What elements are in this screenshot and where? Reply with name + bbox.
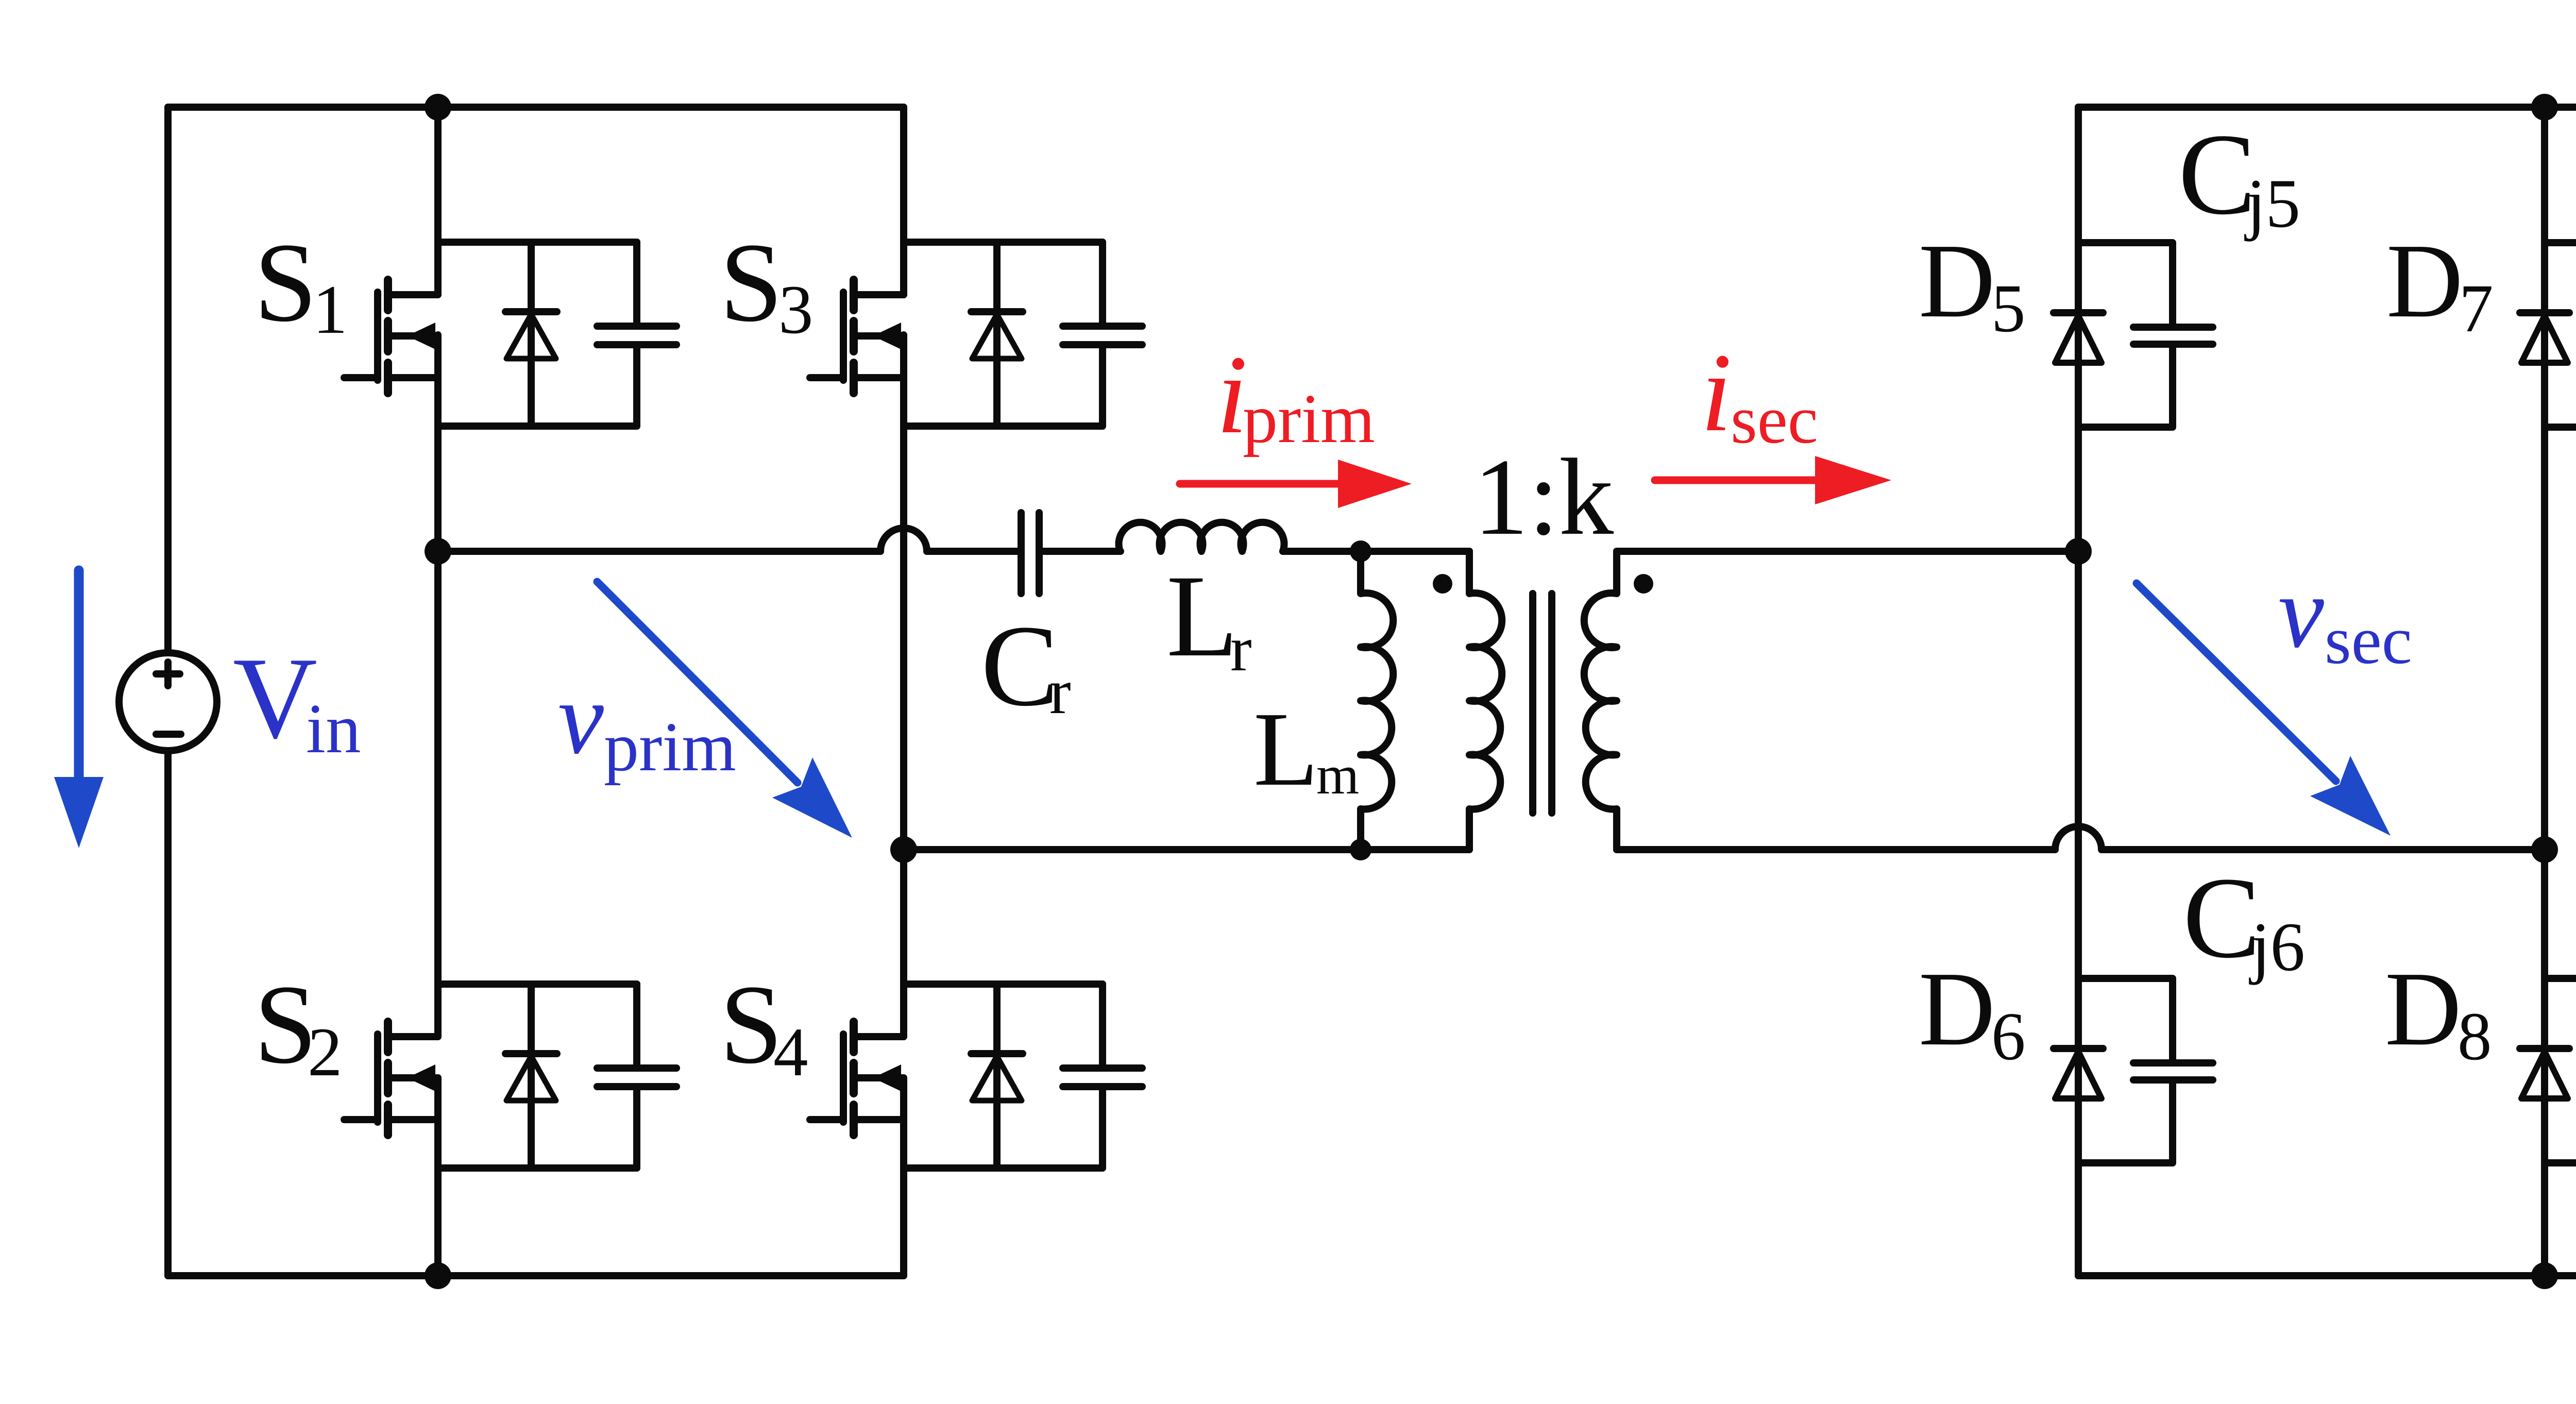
svg-text:5: 5 <box>1991 270 2026 346</box>
node bottom right junction <box>2531 1262 2558 1289</box>
node Lm bottom junction <box>1350 839 1371 860</box>
S4 snubber box right edge <box>1099 984 1106 1065</box>
S4 snubber box top <box>904 980 1103 988</box>
mosfet S2 drain stub <box>388 1033 438 1040</box>
inductor Lm branch <box>1361 551 1393 850</box>
node S3/S4 mid junction <box>890 836 917 863</box>
svg-text:prim: prim <box>604 708 736 786</box>
svg-text:8: 8 <box>2458 998 2492 1074</box>
body diode of S4 branch <box>993 984 1001 1168</box>
svg-text:D: D <box>1919 222 1995 340</box>
Vin minus sign <box>156 731 181 738</box>
svg-text:1:k: 1:k <box>1473 436 1614 558</box>
wire left rail upper (Vin +) <box>164 107 172 653</box>
svg-text:j6: j6 <box>2249 909 2305 986</box>
output capacitor of S1 plates <box>597 323 676 330</box>
mosfet S4 source stub <box>854 1116 904 1123</box>
mosfet S2 source stub <box>388 1116 438 1123</box>
mosfet S3 source stub <box>854 374 904 381</box>
diode D8 cathode bar <box>2520 1045 2569 1052</box>
svg-text:S: S <box>254 219 317 345</box>
node rectifier top junction <box>2531 94 2558 121</box>
svg-text:i: i <box>1701 331 1732 455</box>
S1 snubber box bottom <box>438 422 637 430</box>
wire D7/D8 leg <box>2541 107 2548 1276</box>
svg-text:in: in <box>306 689 361 768</box>
wire bottom rail right <box>2078 1272 2576 1279</box>
svg-text:4: 4 <box>773 1014 808 1091</box>
mosfet S4 gate bar <box>840 1034 847 1122</box>
capacitor Cr plates <box>1018 513 1025 594</box>
junction capacitor C6 bracket <box>2078 978 2173 1060</box>
wire S3/S4 leg bottom <box>900 1078 907 1276</box>
mosfet S2 gate bar <box>374 1034 381 1122</box>
wire D5/D6 leg <box>2075 107 2082 1276</box>
transformer T1 secondary winding <box>1584 551 1617 850</box>
wire hop to D7 leg <box>2102 846 2545 853</box>
junction capacitor C5 plates <box>2133 324 2213 331</box>
svg-text:1: 1 <box>313 272 348 348</box>
diode D6 cathode bar <box>2054 1045 2103 1052</box>
transformer T1 primary winding <box>1469 551 1502 850</box>
svg-text:j5: j5 <box>2244 165 2300 242</box>
output capacitor of S2 plates <box>597 1064 676 1072</box>
wire mid rail from S1 leg <box>438 548 880 555</box>
mosfet S3 body line with arrow <box>856 332 904 340</box>
transformer primary polarity dot <box>1433 574 1452 594</box>
wire Cr to Lr <box>1042 548 1121 555</box>
diode D8 triangle <box>2521 1052 2568 1098</box>
node secondary top junction <box>2065 538 2092 565</box>
svg-text:L: L <box>1166 551 1238 681</box>
wire hop over S3/S4 leg <box>880 528 927 551</box>
svg-text:C: C <box>2178 110 2256 239</box>
svg-text:C: C <box>2183 853 2261 982</box>
wire low rail primary <box>904 846 1469 853</box>
svg-text:C: C <box>981 601 1059 730</box>
S1 snubber box top <box>438 239 637 246</box>
mosfet S1 gate lead <box>344 374 378 381</box>
wire S1/S2 leg middle <box>434 335 442 1037</box>
diode D7 cathode bar <box>2520 309 2569 316</box>
arrow v_sec (blue diagonal) <box>2137 583 2336 781</box>
junction capacitor C8 bracket <box>2545 978 2576 1060</box>
svg-text:prim: prim <box>1243 380 1375 458</box>
svg-text:S: S <box>720 219 783 345</box>
wire S1/S2 leg bottom <box>434 1078 442 1276</box>
svg-text:sec: sec <box>2325 602 2412 678</box>
mosfet S4 drain stub <box>854 1033 904 1040</box>
mosfet S3 gate bar <box>840 292 847 380</box>
mosfet S1 body line with arrow <box>390 332 438 340</box>
svg-text:D: D <box>1919 950 1995 1068</box>
svg-text:v: v <box>2278 555 2324 669</box>
svg-text:V: V <box>233 634 317 763</box>
wire bottom rail left <box>168 1272 904 1279</box>
diode D7 triangle <box>2521 316 2568 363</box>
wire S1/S2 leg top <box>434 107 442 295</box>
S2 snubber box bottom <box>438 1164 637 1172</box>
body diode of S4 cathode bar <box>971 1050 1023 1057</box>
mosfet S1 channel dashes <box>384 280 392 310</box>
body diode of S4 triangle <box>972 1056 1022 1101</box>
svg-text:r: r <box>1230 614 1252 685</box>
svg-text:7: 7 <box>2459 270 2494 346</box>
body diode of S3 triangle <box>972 314 1022 359</box>
S3 snubber box bottom <box>904 422 1103 430</box>
diode D6 triangle <box>2055 1052 2102 1098</box>
svg-text:sec: sec <box>1731 381 1818 458</box>
transformer secondary polarity dot <box>1634 574 1653 594</box>
body diode of S2 cathode bar <box>505 1050 557 1057</box>
wire secondary low rail <box>1617 846 2055 853</box>
wire hop to Cr <box>927 548 1018 555</box>
Vin plus sign <box>156 670 180 678</box>
mosfet S4 body line with arrow <box>856 1074 904 1081</box>
diode D5 triangle <box>2055 316 2102 363</box>
transformer T1 core <box>1529 594 1536 813</box>
svg-text:r: r <box>1049 656 1071 728</box>
body diode of S3 cathode bar <box>971 308 1023 315</box>
mosfet S1 drain stub <box>388 291 438 298</box>
svg-text:3: 3 <box>778 272 814 348</box>
svg-text:6: 6 <box>1991 998 2026 1074</box>
mosfet S1 gate bar <box>374 292 381 380</box>
S2 snubber box right edge <box>633 984 640 1065</box>
S1 snubber box right edge <box>633 242 640 323</box>
wire rectifier top rail <box>2078 104 2576 111</box>
body diode of S1 triangle <box>506 314 556 359</box>
body diode of S1 branch <box>528 242 535 426</box>
junction capacitor C5 bracket <box>2078 243 2173 324</box>
wire hop over D5/D6 leg <box>2055 826 2102 850</box>
voltage source Vin circle <box>119 653 217 751</box>
body diode of S2 triangle <box>506 1056 556 1101</box>
mosfet S2 gate lead <box>344 1116 378 1123</box>
S3 snubber box top <box>904 239 1103 246</box>
arrow i_sec (red right) <box>1655 477 1815 484</box>
mosfet S2 body line with arrow <box>390 1074 438 1081</box>
mosfet S2 channel dashes <box>384 1022 392 1052</box>
node Lm top junction <box>1350 540 1371 562</box>
node primary mid junction <box>425 538 451 565</box>
mosfet S3 gate lead <box>810 374 843 381</box>
body diode of S3 branch <box>993 242 1001 426</box>
junction capacitor C7 bracket <box>2545 243 2576 324</box>
wire secondary top rail <box>1617 548 2078 555</box>
svg-text:L: L <box>1253 690 1318 808</box>
inductor Lr <box>1119 522 1284 551</box>
svg-text:v: v <box>558 662 604 775</box>
wire top rail (input bridge) <box>168 104 904 111</box>
mosfet S4 gate lead <box>810 1116 843 1123</box>
svg-text:m: m <box>1316 745 1359 806</box>
mosfet S3 drain stub <box>854 291 904 298</box>
node bottom left junction <box>425 1262 451 1289</box>
mosfet S3 channel dashes <box>850 280 858 310</box>
svg-text:2: 2 <box>308 1014 343 1091</box>
wire S3/S4 leg middle <box>900 335 907 1037</box>
node input top junction <box>425 94 451 121</box>
wire S3/S4 leg top <box>900 107 907 295</box>
arrow Vin direction (blue down) <box>74 570 84 777</box>
node secondary low junction <box>2531 836 2558 863</box>
junction capacitor C6 plates <box>2133 1059 2213 1067</box>
wire left rail lower (Vin -) <box>164 751 172 1276</box>
output capacitor of S3 plates <box>1063 323 1142 330</box>
S2 snubber box top <box>438 980 637 988</box>
output capacitor of S4 plates <box>1063 1064 1142 1072</box>
mosfet S4 channel dashes <box>850 1022 858 1052</box>
body diode of S2 branch <box>528 984 535 1168</box>
mosfet S1 source stub <box>388 374 438 381</box>
diode D5 cathode bar <box>2054 309 2103 316</box>
wire Lr to primary <box>1283 548 1469 555</box>
svg-text:D: D <box>2386 222 2463 340</box>
arrow i_prim (red right) <box>1180 480 1338 488</box>
S4 snubber box bottom <box>904 1164 1103 1172</box>
arrow v_prim (blue diagonal) <box>597 582 798 783</box>
svg-text:D: D <box>2385 950 2462 1068</box>
body diode of S1 cathode bar <box>505 308 557 315</box>
S3 snubber box right edge <box>1099 242 1106 323</box>
